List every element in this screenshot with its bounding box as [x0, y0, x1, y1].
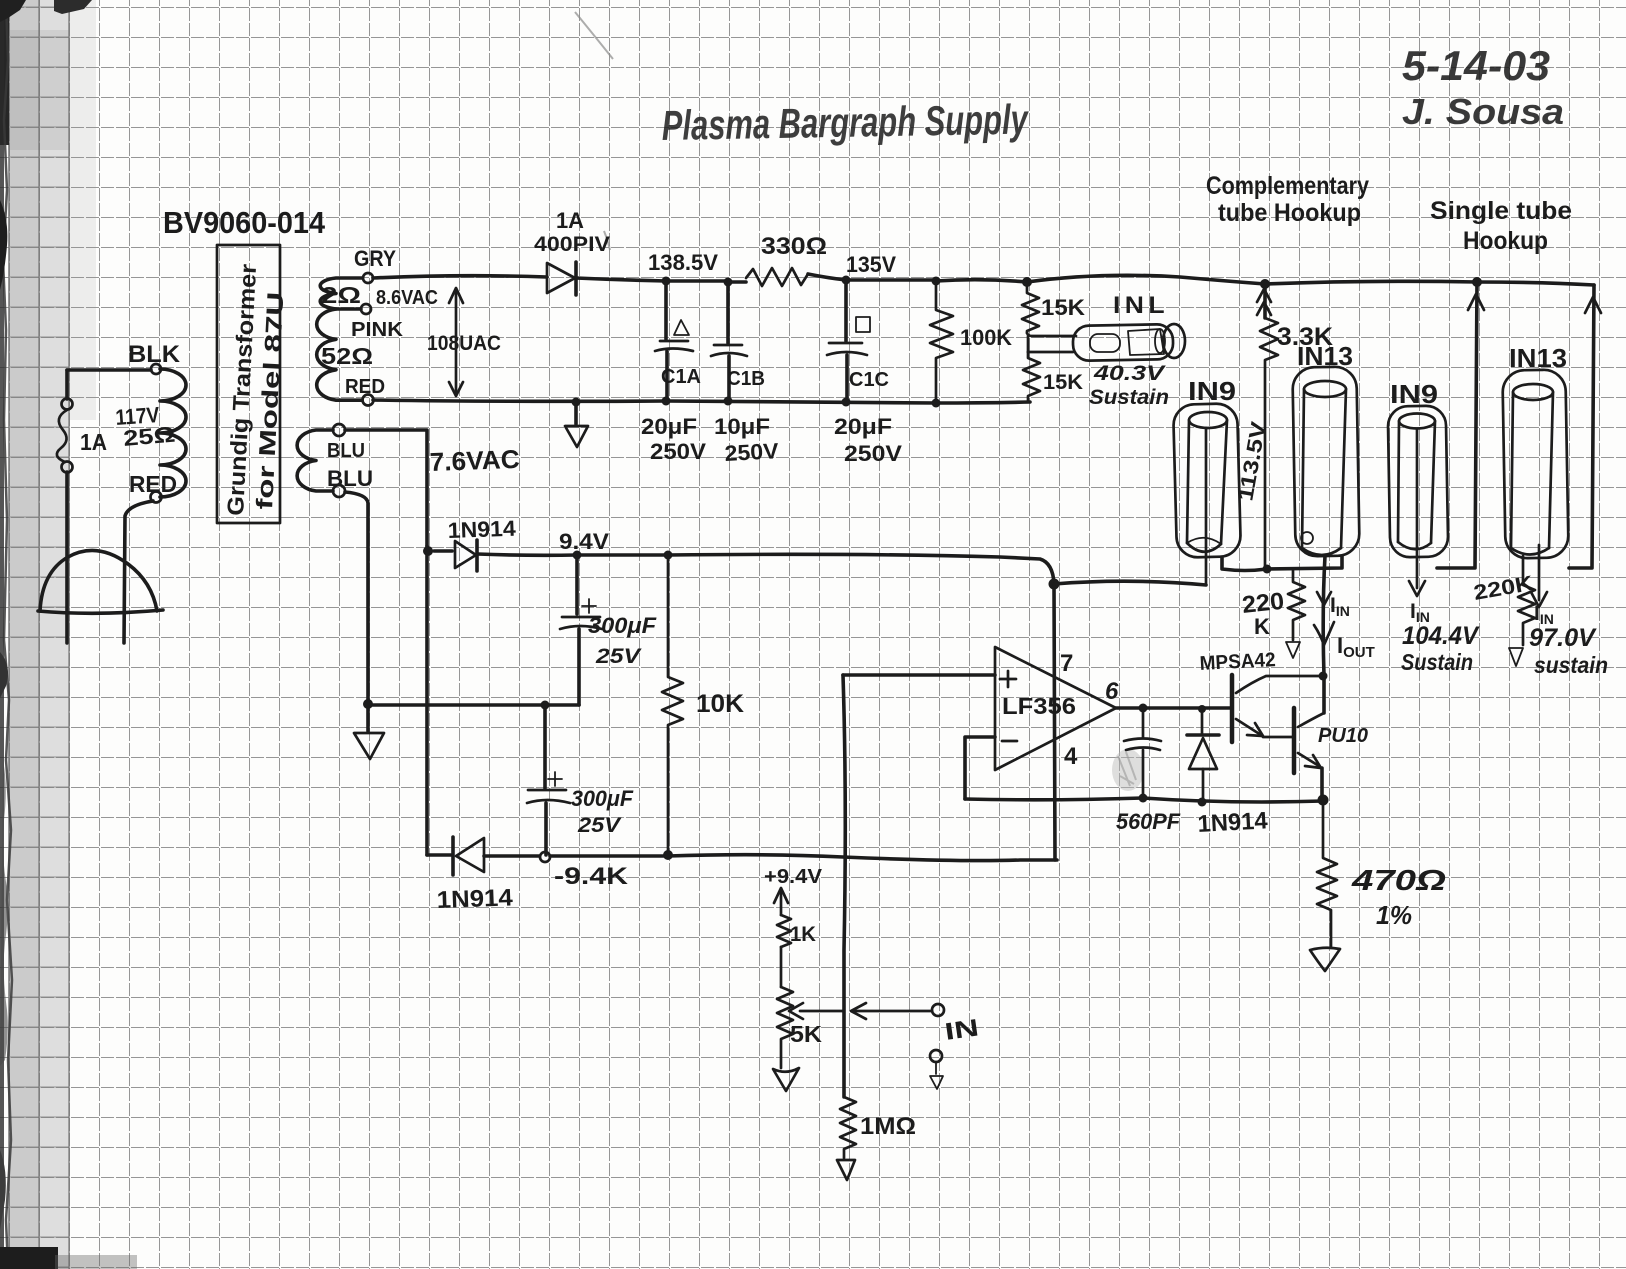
svg-text:1%: 1%	[1376, 900, 1412, 930]
svg-text:K: K	[1254, 614, 1270, 639]
resistor R8 1M	[840, 1097, 856, 1158]
node: IN return circle	[930, 1050, 942, 1062]
wire: V+ node to tube feed	[1054, 581, 1206, 585]
svg-text:10μF: 10μF	[714, 414, 770, 439]
ground: HV common	[574, 402, 578, 424]
wire: hot lead down to plug prong	[65, 370, 69, 399]
svg-text:Single tube: Single tube	[1430, 197, 1572, 225]
svg-text:330Ω: 330Ω	[761, 233, 827, 260]
node: +9.4V 10K junction	[664, 551, 673, 560]
svg-text:135V: 135V	[846, 252, 896, 277]
svg-text:1N914: 1N914	[447, 516, 517, 543]
arrow: 220K to negative	[1509, 648, 1523, 666]
wire: centre tap ground bus	[368, 703, 579, 707]
node: 470 ohm top junction	[1318, 795, 1329, 806]
resistor R4 15K lower	[1023, 352, 1040, 402]
wire: 7.6V bottom tap down to minus rectifier	[345, 492, 368, 700]
svg-text:GRY: GRY	[354, 246, 396, 271]
node: V2 cathode dot mark	[1301, 532, 1313, 544]
node: IN jack circle	[932, 1004, 944, 1016]
svg-text:C1A: C1A	[661, 366, 701, 388]
resistor R5 10K	[662, 555, 683, 855]
node: ground stub junction	[572, 398, 581, 407]
wire: RED tap common rail	[373, 400, 1030, 403]
node: 138.5V junction	[662, 277, 671, 286]
svg-text:IN13: IN13	[1297, 341, 1353, 371]
node: 560pF bottom junction	[1139, 794, 1148, 803]
wire: +9.4V feed arrow	[780, 892, 783, 915]
tube V1 inner cylinder	[1189, 412, 1227, 428]
transformer T1 core box	[217, 245, 280, 523]
svg-text:MPSA42: MPSA42	[1199, 649, 1276, 675]
tube V1 IN9 envelope	[1173, 403, 1241, 558]
resistor R1 330 ohm	[746, 268, 808, 286]
node: Iout collector junction	[1319, 672, 1328, 681]
label - input	[1002, 740, 1017, 743]
svg-text:9.4V: 9.4V	[559, 529, 609, 554]
svg-text:104.4V: 104.4V	[1402, 622, 1480, 650]
svg-text:300μF: 300μF	[571, 786, 634, 811]
svg-text:1MΩ: 1MΩ	[860, 1113, 916, 1140]
tube V3 inner cylinder	[1399, 414, 1435, 429]
wire: lamp lower lead	[1028, 351, 1073, 354]
wire: prong wire through plug body	[65, 472, 69, 643]
fuse F1 1A	[57, 410, 67, 462]
wire: rail to single tube hookup	[1265, 281, 1477, 284]
svg-text:J. Sousa: J. Sousa	[1402, 91, 1564, 132]
node: RED tap circle	[363, 395, 374, 406]
node: C1A bottom junction	[662, 397, 671, 406]
svg-text:BV9060-014: BV9060-014	[163, 205, 326, 240]
diode D3 1N914 (-9.4V)	[427, 853, 451, 857]
capacitor C2 300uF 25V upper	[575, 555, 579, 614]
wire: IN jack to summing node	[852, 1010, 931, 1013]
svg-text:560PF: 560PF	[1116, 809, 1181, 834]
wire: V1 centre electrode to V+ feed	[1205, 428, 1208, 585]
svg-text:Sustain: Sustain	[1089, 386, 1169, 409]
wire: -9.4V rail	[550, 855, 1057, 861]
svg-text:7: 7	[1060, 650, 1073, 677]
node: 15K chain top junction	[1022, 277, 1032, 287]
wire: summing node vertical	[843, 675, 845, 1097]
resistor R6 1K	[777, 915, 791, 947]
wire: V1 anode to 113.5V node	[1222, 556, 1342, 571]
svg-text:1N914: 1N914	[436, 884, 514, 914]
node: fuse terminal lower	[62, 462, 73, 473]
wire: anode feed V3	[1437, 282, 1477, 568]
svg-text:25Ω: 25Ω	[122, 422, 176, 451]
capacitor C3 300uF 25V lower	[543, 705, 547, 788]
svg-text:7.6VAC: 7.6VAC	[429, 444, 520, 477]
tube V2 IN13 envelope	[1292, 366, 1359, 556]
wire: V4 cathode Iin arrow	[1538, 545, 1541, 600]
wire: C1B node to 330 ohm	[728, 280, 746, 284]
svg-text:INL: INL	[1113, 292, 1169, 319]
svg-text:6: 6	[1105, 678, 1119, 705]
svg-text:+9.4V: +9.4V	[764, 866, 823, 888]
node: 100K bottom junction	[932, 399, 941, 408]
svg-text:100K: 100K	[960, 325, 1012, 350]
ground: 1M bottom	[837, 1160, 855, 1180]
resistor R9 470 ohm 1%	[1317, 800, 1337, 947]
svg-text:Plasma Bargraph Supply: Plasma Bargraph Supply	[661, 96, 1030, 149]
capacitor C1A 20uF 250V	[664, 281, 668, 339]
svg-text:20μF: 20μF	[834, 414, 892, 439]
resistor R10 3.3K	[1260, 318, 1278, 568]
svg-text:1N914: 1N914	[1197, 807, 1269, 838]
ground: 5K bottom arrow	[773, 1068, 799, 1091]
svg-text:IN9: IN9	[1390, 379, 1438, 409]
tube V3 IN9 envelope	[1388, 406, 1449, 558]
node: +rect junction	[423, 546, 433, 556]
svg-text:2Ω: 2Ω	[321, 282, 361, 308]
resistor R2 100K bleeder	[930, 281, 953, 403]
node: PINK tap circle	[361, 304, 371, 314]
transistor Q2 PU10	[1292, 708, 1297, 773]
node: 560pF top junction	[1139, 704, 1148, 713]
transformer T1 secondary 52 ohm section	[317, 309, 362, 400]
svg-text:20μF: 20μF	[641, 414, 697, 439]
wire: 7.6V top tap over to rectifier column	[345, 430, 427, 546]
svg-text:5K: 5K	[790, 1021, 822, 1047]
svg-text:1A: 1A	[556, 208, 584, 233]
capacitor C1C 20uF 250V	[844, 280, 848, 341]
svg-text:PINK: PINK	[351, 319, 404, 341]
node: top tap circle (0)	[333, 424, 345, 436]
wire: GRY tap to rectifier diode	[373, 276, 547, 278]
torn left paper edge	[0, 0, 4, 1269]
tube V4 inner cylinder	[1513, 384, 1553, 400]
svg-text:5-14-03: 5-14-03	[1402, 42, 1550, 89]
svg-text:PU10: PU10	[1318, 725, 1368, 747]
tube V4 IN13 envelope	[1502, 369, 1568, 558]
wire: collector bus between Q1 Q2	[1322, 676, 1326, 713]
annotation: 108VAC measurement arrow	[455, 292, 458, 392]
svg-text:15K: 15K	[1041, 295, 1085, 320]
wire: V2 cathode to output with Iin arrow	[1323, 556, 1325, 676]
svg-text:4: 4	[1064, 743, 1078, 770]
svg-text:C1B: C1B	[727, 368, 765, 390]
node: -9.4V probe circle	[540, 852, 550, 862]
resistor R11 220K	[1288, 570, 1305, 640]
ground: IN return	[935, 1062, 937, 1074]
wire: 135V rail to complementary hookup	[1027, 275, 1265, 284]
svg-text:300μF: 300μF	[588, 613, 657, 638]
svg-text:400PIV: 400PIV	[534, 233, 610, 256]
wire: 138.5V node to C1B node	[666, 279, 728, 283]
AC plug base line	[38, 610, 163, 613]
node: +9.4V cap junction	[573, 551, 582, 560]
node: V+ supply junction	[1049, 579, 1060, 590]
svg-text:IN: IN	[943, 1014, 980, 1045]
wiper arrow into 5K	[800, 1010, 843, 1013]
resistor R12 220K	[1518, 556, 1535, 645]
svg-text:Sustain: Sustain	[1401, 649, 1473, 675]
wire: diode to 138.5V node	[576, 278, 666, 281]
arrow: Iout marker	[1314, 622, 1334, 645]
diode D2 1N914 (+9.4V)	[434, 549, 452, 553]
node: RED terminal circle	[151, 492, 162, 503]
node: GRY tap circle	[363, 273, 373, 283]
svg-text:470Ω: 470Ω	[1351, 865, 1447, 897]
svg-text:8.6VAC: 8.6VAC	[376, 287, 438, 309]
svg-text:Hookup: Hookup	[1463, 227, 1548, 255]
node: complementary feed junction	[1260, 279, 1270, 289]
svg-text:108UAC: 108UAC	[427, 332, 501, 355]
wire: 330 ohm to 135V node	[808, 274, 846, 280]
transformer T1 secondary 2 ohm section	[320, 278, 362, 309]
wire: rail to right edge feed	[1477, 282, 1594, 285]
arrow: 220K to negative	[1286, 642, 1300, 658]
svg-text:15K: 15K	[1043, 371, 1083, 394]
potentiometer R7 5K	[777, 987, 793, 1068]
wire: V3 cathode Iin arrow	[1416, 430, 1419, 588]
wire: lamp upper lead	[1027, 333, 1076, 336]
wire: +9.4V rail	[477, 554, 1054, 584]
wire: 135V node to 100K node	[846, 278, 936, 282]
tube V2 inner cylinder	[1304, 381, 1346, 397]
node: BLK terminal circle	[151, 364, 161, 374]
node: centre ground junction	[363, 699, 373, 709]
wire: 3.3K feed with up arrows	[1263, 284, 1267, 318]
svg-text:250V: 250V	[724, 438, 780, 466]
wire: -input feedback step	[965, 737, 995, 799]
svg-text:138.5V: 138.5V	[648, 250, 718, 275]
svg-text:-9.4K: -9.4K	[554, 863, 629, 890]
wire: +input from summing node	[843, 673, 995, 677]
svg-text:97.0V: 97.0V	[1529, 624, 1597, 652]
svg-text:LF356: LF356	[1002, 693, 1076, 719]
svg-text:Complementary: Complementary	[1206, 172, 1369, 200]
node: 1N914 bottom junction	[1198, 798, 1207, 807]
node: fuse terminal upper	[62, 399, 73, 410]
wire: 7.6V feed down to -rectifier	[425, 546, 429, 855]
capacitor C4 560pF	[1142, 708, 1145, 738]
wire: output pin6	[1116, 706, 1232, 710]
node: clamp diode top junction	[1198, 705, 1206, 713]
node: C1B top junction	[724, 278, 733, 287]
svg-text:40.3V: 40.3V	[1093, 362, 1167, 385]
node: 113.5V junction	[1263, 565, 1272, 574]
svg-text:250V: 250V	[844, 441, 902, 466]
wire: RED lead down through plug	[124, 501, 153, 643]
node: bottom tap circle	[333, 485, 345, 497]
svg-text:sustain: sustain	[1534, 652, 1608, 678]
diode D4 1N914 clamp	[1201, 708, 1204, 734]
svg-text:25V: 25V	[577, 814, 622, 837]
wire: divider middle	[1027, 336, 1030, 352]
eraser smudge	[1112, 749, 1144, 791]
resistor R3 15K upper	[1022, 282, 1039, 333]
svg-text:10K: 10K	[696, 690, 744, 718]
node: -9.4V 10K junction	[663, 850, 673, 860]
label + input	[1000, 671, 1016, 687]
svg-text:250V: 250V	[650, 439, 706, 464]
wire: supply line through op-amp (pin7 top, pin4 bottom)	[1054, 584, 1055, 860]
node: 135V junction	[842, 276, 851, 285]
svg-text:52Ω: 52Ω	[321, 343, 373, 369]
transformer T1 primary winding	[160, 369, 186, 497]
wire: AC hot lead to primary	[67, 368, 151, 372]
wire: anode feed V4	[1569, 285, 1594, 568]
faint pencil stray mark top centre	[575, 12, 613, 59]
svg-text:tube Hookup: tube Hookup	[1218, 199, 1361, 227]
ground: 470 ohm bottom	[1310, 948, 1340, 971]
op-amp U1 LF356 triangle	[995, 647, 1116, 770]
svg-text:IN13: IN13	[1509, 343, 1567, 373]
node: 100K top junction	[932, 277, 941, 286]
svg-text:BLU: BLU	[327, 440, 365, 462]
transformer T1 secondary 7.6V winding	[297, 430, 333, 491]
AC plug body dome	[40, 550, 157, 611]
svg-text:25V: 25V	[595, 645, 643, 668]
svg-text:C1C: C1C	[849, 369, 889, 391]
node: single tube feed junction	[1472, 277, 1482, 287]
wire: 100K node to 15K node	[936, 280, 1027, 282]
left margin scanner shading band	[8, 0, 70, 1269]
transistor Q1 MPSA42	[1230, 675, 1235, 742]
capacitor C1B 10uF 250V	[726, 282, 730, 343]
ground: centre tap	[366, 705, 370, 731]
neon lamp INL body	[1073, 324, 1174, 361]
svg-text:IN9: IN9	[1188, 376, 1236, 406]
svg-text:1A: 1A	[80, 429, 107, 455]
wire: feedback bus	[965, 798, 1323, 802]
node: lower cap junction	[541, 701, 550, 710]
svg-text:1K: 1K	[790, 923, 816, 946]
node: C1B bottom junction	[724, 397, 733, 406]
node: C1C bottom junction	[842, 398, 851, 407]
diode D1 1A 400PIV	[547, 263, 575, 293]
